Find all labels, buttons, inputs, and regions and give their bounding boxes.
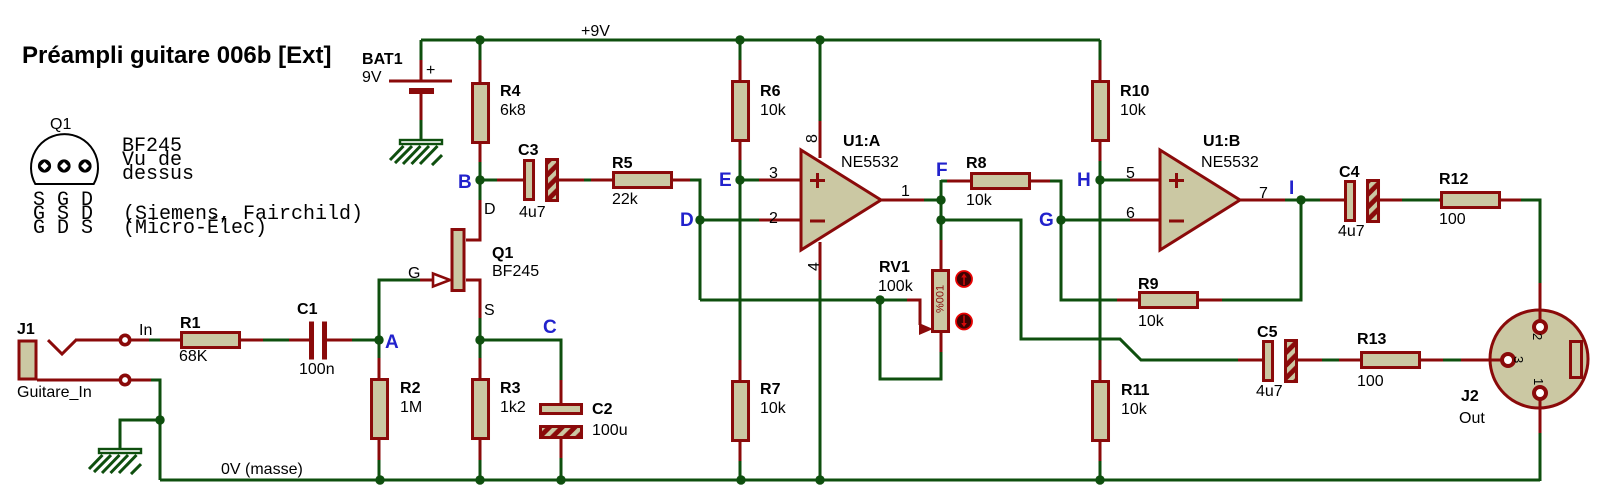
capacitor C1 xyxy=(289,301,353,378)
potentiometer RV1 pin/segment xyxy=(919,323,933,335)
svg-text:I: I xyxy=(1289,178,1294,199)
resistor R5 xyxy=(591,155,691,208)
RV1 up button shape xyxy=(956,271,972,287)
capacitor C5 xyxy=(1238,324,1323,400)
ground (input) wire/stroke xyxy=(89,455,103,469)
resistor R9 xyxy=(1117,276,1223,330)
resistor R11 xyxy=(1093,360,1150,480)
svg-text:S: S xyxy=(484,302,495,319)
RV1 down button shape xyxy=(956,314,972,330)
svg-text:100: 100 xyxy=(1357,373,1384,390)
resistor R6 wire/stroke xyxy=(739,160,742,180)
resistor R7 pin/segment xyxy=(739,441,742,462)
svg-text:G D S: G D S xyxy=(33,217,93,240)
resistor R10 pin/segment xyxy=(1099,60,1102,82)
svg-text:R1: R1 xyxy=(180,315,201,332)
op-amp U1:B pin/segment xyxy=(1130,219,1160,222)
wire A up to gate xyxy=(379,280,421,340)
resistor R10 xyxy=(1093,40,1150,180)
resistor R6 pin/segment xyxy=(739,60,742,82)
svg-text:10k: 10k xyxy=(1121,401,1148,418)
resistor R13 pin/segment xyxy=(1419,359,1444,362)
capacitor C4 xyxy=(1320,164,1403,240)
resistor R8 xyxy=(947,155,1051,209)
connector J1 body xyxy=(19,341,36,379)
junction dot at (379,340) xyxy=(374,335,383,344)
capacitor C3 xyxy=(497,142,585,221)
svg-text:D: D xyxy=(680,210,694,231)
svg-text:Guitare_In: Guitare_In xyxy=(17,384,92,401)
op-amp U1:A pin/segment xyxy=(816,173,819,188)
transistor Q1 pin/segment xyxy=(466,280,480,319)
RV1 up button shape xyxy=(963,275,965,285)
op-amp U1:B pin/segment xyxy=(1130,179,1160,182)
connector J2 pin/segment xyxy=(1461,359,1502,362)
capacitor C2 wire/stroke xyxy=(560,458,563,480)
wire D to pin2 xyxy=(700,219,760,222)
RV1 up button shape xyxy=(961,274,967,278)
ground (input) wire/stroke xyxy=(94,455,111,472)
ground (battery) wire/stroke xyxy=(400,140,442,144)
wire E down to R7 xyxy=(739,180,742,361)
resistor R12 pin/segment xyxy=(1499,199,1522,202)
connector J2 xyxy=(1459,283,1588,434)
svg-text:B: B xyxy=(458,172,472,193)
svg-text:10k: 10k xyxy=(1120,102,1147,119)
transistor package drawing Q1 top view shape xyxy=(57,159,70,172)
resistor R7 wire/stroke xyxy=(739,461,742,480)
resistor R5 body xyxy=(614,173,672,188)
resistor R4 xyxy=(473,40,526,180)
wire xyxy=(924,199,941,202)
resistor R4 wire/stroke xyxy=(479,40,482,62)
resistor R1 body xyxy=(182,333,240,348)
resistor R8 pin/segment xyxy=(947,180,971,183)
resistor R9 pin/segment xyxy=(1117,299,1139,302)
wire F corner to R8 xyxy=(941,180,948,183)
resistor R9 pin/segment xyxy=(1197,299,1223,302)
svg-text:R8: R8 xyxy=(966,155,987,172)
svg-text:4u7: 4u7 xyxy=(519,204,546,221)
wire RV1 bottom loop xyxy=(880,300,941,379)
resistor R3 xyxy=(473,340,526,480)
wire Q1 source to S node xyxy=(479,318,482,340)
wire pin7 to I xyxy=(1240,199,1286,202)
svg-text:BAT1: BAT1 xyxy=(362,51,403,68)
connector J2 pin/segment xyxy=(1534,387,1546,399)
svg-text:1: 1 xyxy=(901,183,910,200)
wire G to pin6 xyxy=(1061,219,1131,222)
svg-text:Out: Out xyxy=(1459,410,1485,427)
capacitor C4 pin/segment xyxy=(1378,199,1403,202)
wire F vertical xyxy=(940,180,943,241)
transistor Q1 pin/segment xyxy=(466,199,480,240)
svg-text:J1: J1 xyxy=(17,321,35,338)
resistor R7 xyxy=(733,360,787,480)
svg-text:U1:B: U1:B xyxy=(1203,133,1240,150)
resistor R8 body xyxy=(972,174,1030,189)
junction dot at (1100,180) xyxy=(1095,175,1104,184)
resistor R2 body xyxy=(372,380,388,439)
battery BAT1 pin/segment xyxy=(389,80,452,83)
resistor R6 pin/segment xyxy=(739,140,742,161)
svg-text:In: In xyxy=(139,322,152,339)
wire C4 to R12 xyxy=(1402,199,1440,202)
svg-text:F: F xyxy=(936,160,948,181)
junction dot at (1061,220) xyxy=(1056,215,1065,224)
text BF245 block xyxy=(122,135,194,186)
junction dot at (480,480) xyxy=(475,475,484,484)
junction dot at (1301,200) xyxy=(1296,195,1305,204)
resistor R8 pin/segment xyxy=(1029,180,1051,183)
connector J2 pin/segment xyxy=(1571,342,1582,378)
svg-text:U1:A: U1:A xyxy=(843,133,881,150)
wire pin1 to F xyxy=(881,199,925,202)
svg-text:C4: C4 xyxy=(1339,164,1360,181)
wire D down to RV1 row xyxy=(699,220,702,300)
junction dot at (941,220) xyxy=(936,215,945,224)
wire 0V rail xyxy=(160,479,1540,482)
resistor R13 body xyxy=(1362,353,1420,368)
capacitor C1 pin/segment xyxy=(309,322,314,360)
wire R12 to J2 pin2 xyxy=(1521,200,1540,284)
svg-text:2: 2 xyxy=(769,210,778,227)
ground (input) xyxy=(89,449,141,474)
resistor R4 wire/stroke xyxy=(479,162,482,180)
junction dot at (561,480) xyxy=(556,475,565,484)
svg-text:10k: 10k xyxy=(1138,313,1165,330)
svg-text:+9V: +9V xyxy=(581,23,610,40)
resistor R2 pin/segment xyxy=(378,439,381,461)
resistor R3 body xyxy=(473,380,489,439)
connector J1 xyxy=(17,321,152,401)
resistor R6 body xyxy=(733,82,749,141)
connector J2 pin/segment xyxy=(1539,283,1542,321)
op-amp U1:A pin/segment xyxy=(810,179,825,182)
resistor R11 wire/stroke xyxy=(1099,461,1102,480)
svg-text:D: D xyxy=(484,201,496,218)
resistor R6 wire/stroke xyxy=(739,40,742,62)
svg-text:(Micro-Élec): (Micro-Élec) xyxy=(123,216,267,240)
svg-text:C1: C1 xyxy=(297,301,318,318)
wire H down to R11 xyxy=(1099,180,1102,361)
connector J2 pin/segment xyxy=(1502,354,1514,366)
svg-text:A: A xyxy=(385,332,399,353)
svg-text:J2: J2 xyxy=(1461,388,1479,405)
wire xyxy=(1285,199,1301,202)
wire R1 to C1 xyxy=(263,339,290,342)
connector J1 pin/segment xyxy=(75,339,120,342)
svg-text:Préampli guitare 006b [Ext]: Préampli guitare 006b [Ext] xyxy=(22,42,331,69)
wire C1 to A xyxy=(352,339,379,342)
resistor R2 wire/stroke xyxy=(378,340,381,360)
op-amp U1:B body xyxy=(1160,150,1240,250)
op-amp U1:B pin/segment xyxy=(1169,220,1184,223)
RV1 down button xyxy=(956,314,972,330)
op-amp U1:B xyxy=(1126,133,1268,250)
potentiometer RV1 xyxy=(878,240,949,353)
node junction ground branch xyxy=(155,415,164,424)
svg-text:R5: R5 xyxy=(612,155,633,172)
svg-text:BF245: BF245 xyxy=(492,263,539,280)
svg-text:3: 3 xyxy=(769,165,778,182)
capacitor C4 pin/segment xyxy=(1320,199,1345,202)
junction dot at (480,180) xyxy=(475,175,484,184)
wire xyxy=(880,299,907,302)
transistor Q1 pin/segment xyxy=(420,279,433,282)
junction dot at (741,480) xyxy=(736,475,745,484)
wire R8 to G xyxy=(1050,181,1061,220)
svg-text:100k: 100k xyxy=(878,278,914,295)
connector J2 pin/segment xyxy=(1534,321,1546,333)
connector J1 pin/segment xyxy=(131,339,150,342)
resistor R10 wire/stroke xyxy=(1099,40,1102,62)
svg-text:4: 4 xyxy=(806,262,823,271)
resistor R2 wire/stroke xyxy=(378,460,381,480)
resistor R2 pin/segment xyxy=(378,358,381,380)
transistor package drawing Q1 top view shape xyxy=(78,159,91,172)
svg-text:R13: R13 xyxy=(1357,331,1386,348)
resistor R1 pin/segment xyxy=(160,339,181,342)
wire B to Q1 drain xyxy=(479,180,482,200)
resistor R11 body xyxy=(1093,382,1109,441)
resistor R3 wire/stroke xyxy=(479,460,482,480)
capacitor C2 body xyxy=(541,405,582,414)
resistor R6 xyxy=(733,40,787,180)
resistor R13 xyxy=(1339,331,1444,390)
svg-text:1: 1 xyxy=(1531,378,1546,385)
svg-text:R10: R10 xyxy=(1120,83,1149,100)
resistor R4 body xyxy=(473,84,489,143)
ground (input) wire/stroke xyxy=(111,455,128,473)
potentiometer RV1 body xyxy=(933,271,949,332)
resistor R4 pin/segment xyxy=(479,60,482,84)
junction dot at (820,480) xyxy=(815,475,824,484)
op-amp U1:A body xyxy=(801,150,881,250)
capacitor C5 body xyxy=(1286,341,1297,382)
transistor Q1 pin/segment xyxy=(433,274,450,287)
wire F to C5 run xyxy=(941,220,1239,360)
wire S to C2 xyxy=(480,340,561,381)
transistor package drawing Q1 top view shape xyxy=(38,159,51,172)
svg-text:100u: 100u xyxy=(592,422,628,439)
transistor package drawing Q1 top view shape xyxy=(60,162,68,170)
svg-text:RV1: RV1 xyxy=(879,259,910,276)
svg-text:6: 6 xyxy=(1126,205,1135,222)
junction dots 0V rail xyxy=(375,475,384,484)
resistor R4 pin/segment xyxy=(479,143,482,163)
junction dot at (700,220) xyxy=(695,215,704,224)
transistor package drawing Q1 top view shape xyxy=(41,162,49,170)
wire C5 to R13 xyxy=(1322,359,1340,362)
capacitor C1 pin/segment xyxy=(289,339,310,342)
wire pin8 to +9V xyxy=(819,40,822,121)
ground (battery) xyxy=(390,140,442,165)
resistor R13 pin/segment xyxy=(1339,359,1361,362)
capacitor C1 pin/segment xyxy=(327,339,353,342)
node junction +9V/R4 xyxy=(475,35,484,44)
wire E to pin3 xyxy=(740,179,760,182)
potentiometer RV1 pin/segment xyxy=(940,240,943,271)
svg-text:C5: C5 xyxy=(1257,324,1278,341)
wire I to C4 xyxy=(1301,199,1321,202)
svg-text:5: 5 xyxy=(1126,165,1135,182)
op-amp U1:A pin/segment xyxy=(819,242,822,281)
svg-text:Q1: Q1 xyxy=(492,245,513,262)
resistor R10 pin/segment xyxy=(1099,140,1102,162)
capacitor C2 pin/segment xyxy=(560,380,563,405)
resistor R5 pin/segment xyxy=(671,179,691,182)
ground (battery) wire/stroke xyxy=(395,146,412,163)
battery BAT1 wire/stroke xyxy=(420,40,423,61)
capacitor C2 body xyxy=(541,427,582,438)
wire H to pin5 xyxy=(1100,179,1131,182)
wire J1 tip to R1 xyxy=(149,339,161,342)
node junction +9V/R6 xyxy=(735,35,744,44)
capacitor C1 pin/segment xyxy=(322,322,327,360)
junction dot at (740,180) xyxy=(735,175,744,184)
wire R5 to D xyxy=(690,180,700,220)
resistor R11 pin/segment xyxy=(1099,441,1102,462)
wire R13 to J2 pin3 xyxy=(1443,359,1462,362)
resistor R3 wire/stroke xyxy=(479,340,482,360)
svg-text:0V (masse): 0V (masse) xyxy=(221,461,303,478)
svg-text:1k2: 1k2 xyxy=(500,399,526,416)
text pinout table xyxy=(33,189,93,240)
op-amp U1:B pin/segment xyxy=(1175,173,1178,188)
svg-text:4u7: 4u7 xyxy=(1338,223,1365,240)
potentiometer RV1 pin/segment xyxy=(906,300,920,325)
wire J1 sleeve down xyxy=(151,380,160,480)
ground (battery) wire/stroke xyxy=(403,146,421,164)
connector J1 pin/segment xyxy=(48,340,76,354)
resistor R12 pin/segment xyxy=(1439,199,1441,202)
svg-text:NE5532: NE5532 xyxy=(1201,154,1259,171)
wire R9 to I xyxy=(1222,200,1301,300)
resistor R3 pin/segment xyxy=(479,439,482,461)
svg-text:R12: R12 xyxy=(1439,171,1468,188)
ground (input) wire/stroke xyxy=(119,455,136,473)
svg-text:R4: R4 xyxy=(500,83,521,100)
svg-text:9V: 9V xyxy=(362,69,382,86)
RV1 down button shape xyxy=(963,316,965,326)
connector J1 pin/segment xyxy=(131,379,152,382)
capacitor C5 body xyxy=(1264,342,1273,381)
potentiometer RV1 pin/segment xyxy=(940,331,943,353)
svg-text:G: G xyxy=(1039,210,1054,231)
node S junction xyxy=(475,335,484,344)
svg-text:8: 8 xyxy=(804,134,821,143)
resistor R7 pin/segment xyxy=(739,360,742,382)
transistor package drawing Q1 top view shape xyxy=(81,162,89,170)
svg-text:R11: R11 xyxy=(1121,382,1150,399)
capacitor C3 body xyxy=(525,161,534,200)
svg-text:6k8: 6k8 xyxy=(500,102,526,119)
resistor R5 pin/segment xyxy=(591,179,613,182)
transistor package drawing Q1 top view shape xyxy=(31,134,98,184)
svg-text:dessus: dessus xyxy=(122,163,194,186)
resistor R1 pin/segment xyxy=(239,339,264,342)
battery BAT1 pin/segment xyxy=(420,94,423,121)
capacitor C5 pin/segment xyxy=(1238,359,1263,362)
capacitor C4 body xyxy=(1346,182,1355,221)
svg-text:G: G xyxy=(408,265,420,282)
op-amp U1:B pin/segment xyxy=(1169,179,1184,182)
svg-text:C3: C3 xyxy=(518,142,539,159)
svg-text:R9: R9 xyxy=(1138,276,1159,293)
connector J2 pin/segment xyxy=(1539,399,1542,434)
svg-text:C2: C2 xyxy=(592,401,613,418)
wire G down to R9 xyxy=(1061,220,1118,300)
junction dot at (941,200) xyxy=(936,195,945,204)
wire +9V rail xyxy=(421,39,1100,42)
capacitor C3 body xyxy=(547,160,558,201)
resistor R10 wire/stroke xyxy=(1099,161,1102,180)
svg-text:10k: 10k xyxy=(966,192,993,209)
svg-text:R6: R6 xyxy=(760,83,781,100)
resistor R2 xyxy=(372,340,423,480)
battery BAT1 pin/segment xyxy=(409,88,434,94)
svg-text:10k: 10k xyxy=(760,102,787,119)
transistor package drawing Q1 top view xyxy=(31,116,98,184)
svg-text:68K: 68K xyxy=(179,348,208,365)
svg-text:22k: 22k xyxy=(612,191,639,208)
svg-text:100n: 100n xyxy=(299,361,335,378)
battery BAT1 wire/stroke xyxy=(420,120,423,140)
svg-text:4u7: 4u7 xyxy=(1256,383,1283,400)
wire J2 pin1 to 0V xyxy=(1539,433,1542,481)
svg-text:H: H xyxy=(1077,170,1091,191)
resistor R12 body xyxy=(1442,193,1500,208)
resistor R12 xyxy=(1439,171,1522,228)
ground (input) wire/stroke xyxy=(131,464,141,474)
junction dot at (1100,480) xyxy=(1095,475,1104,484)
op-amp U1:A pin/segment xyxy=(759,179,801,182)
svg-text:C: C xyxy=(543,317,557,338)
RV1 down button shape xyxy=(961,323,967,327)
svg-text:E: E xyxy=(719,170,732,191)
capacitor C2 pin/segment xyxy=(560,437,563,459)
resistor R10 body xyxy=(1093,82,1109,141)
node junction +9V/U1 pin8 xyxy=(815,35,824,44)
op-amp U1:A pin/segment xyxy=(810,220,825,223)
wire D to RV1 wiper xyxy=(700,299,880,302)
wire RV1 wiper junction xyxy=(875,295,884,304)
connector J2 body xyxy=(1490,310,1588,408)
connector J1 pin/segment xyxy=(37,379,120,382)
svg-text:10k: 10k xyxy=(760,400,787,417)
resistor R7 body xyxy=(733,382,749,441)
ground (battery) wire/stroke xyxy=(390,146,404,160)
svg-text:R7: R7 xyxy=(760,381,781,398)
connector J1 pin/segment xyxy=(120,335,129,344)
capacitor C3 pin/segment xyxy=(558,179,585,182)
wire to ground symbol xyxy=(120,420,160,449)
svg-text:R2: R2 xyxy=(400,380,421,397)
op-amp U1:A pin/segment xyxy=(759,219,801,222)
resistor R11 pin/segment xyxy=(1099,360,1102,382)
ground (battery) wire/stroke xyxy=(412,146,430,164)
resistor R1 xyxy=(160,315,264,365)
svg-text:Q1: Q1 xyxy=(50,116,71,133)
ground (battery) wire/stroke xyxy=(420,146,438,164)
ground (input) wire/stroke xyxy=(99,449,141,453)
resistor R3 pin/segment xyxy=(479,358,482,380)
text manufacturers xyxy=(123,203,363,240)
resistor R9 body xyxy=(1140,293,1198,308)
transistor Q1 xyxy=(408,199,539,319)
op-amp U1:A pin/segment xyxy=(819,119,822,158)
